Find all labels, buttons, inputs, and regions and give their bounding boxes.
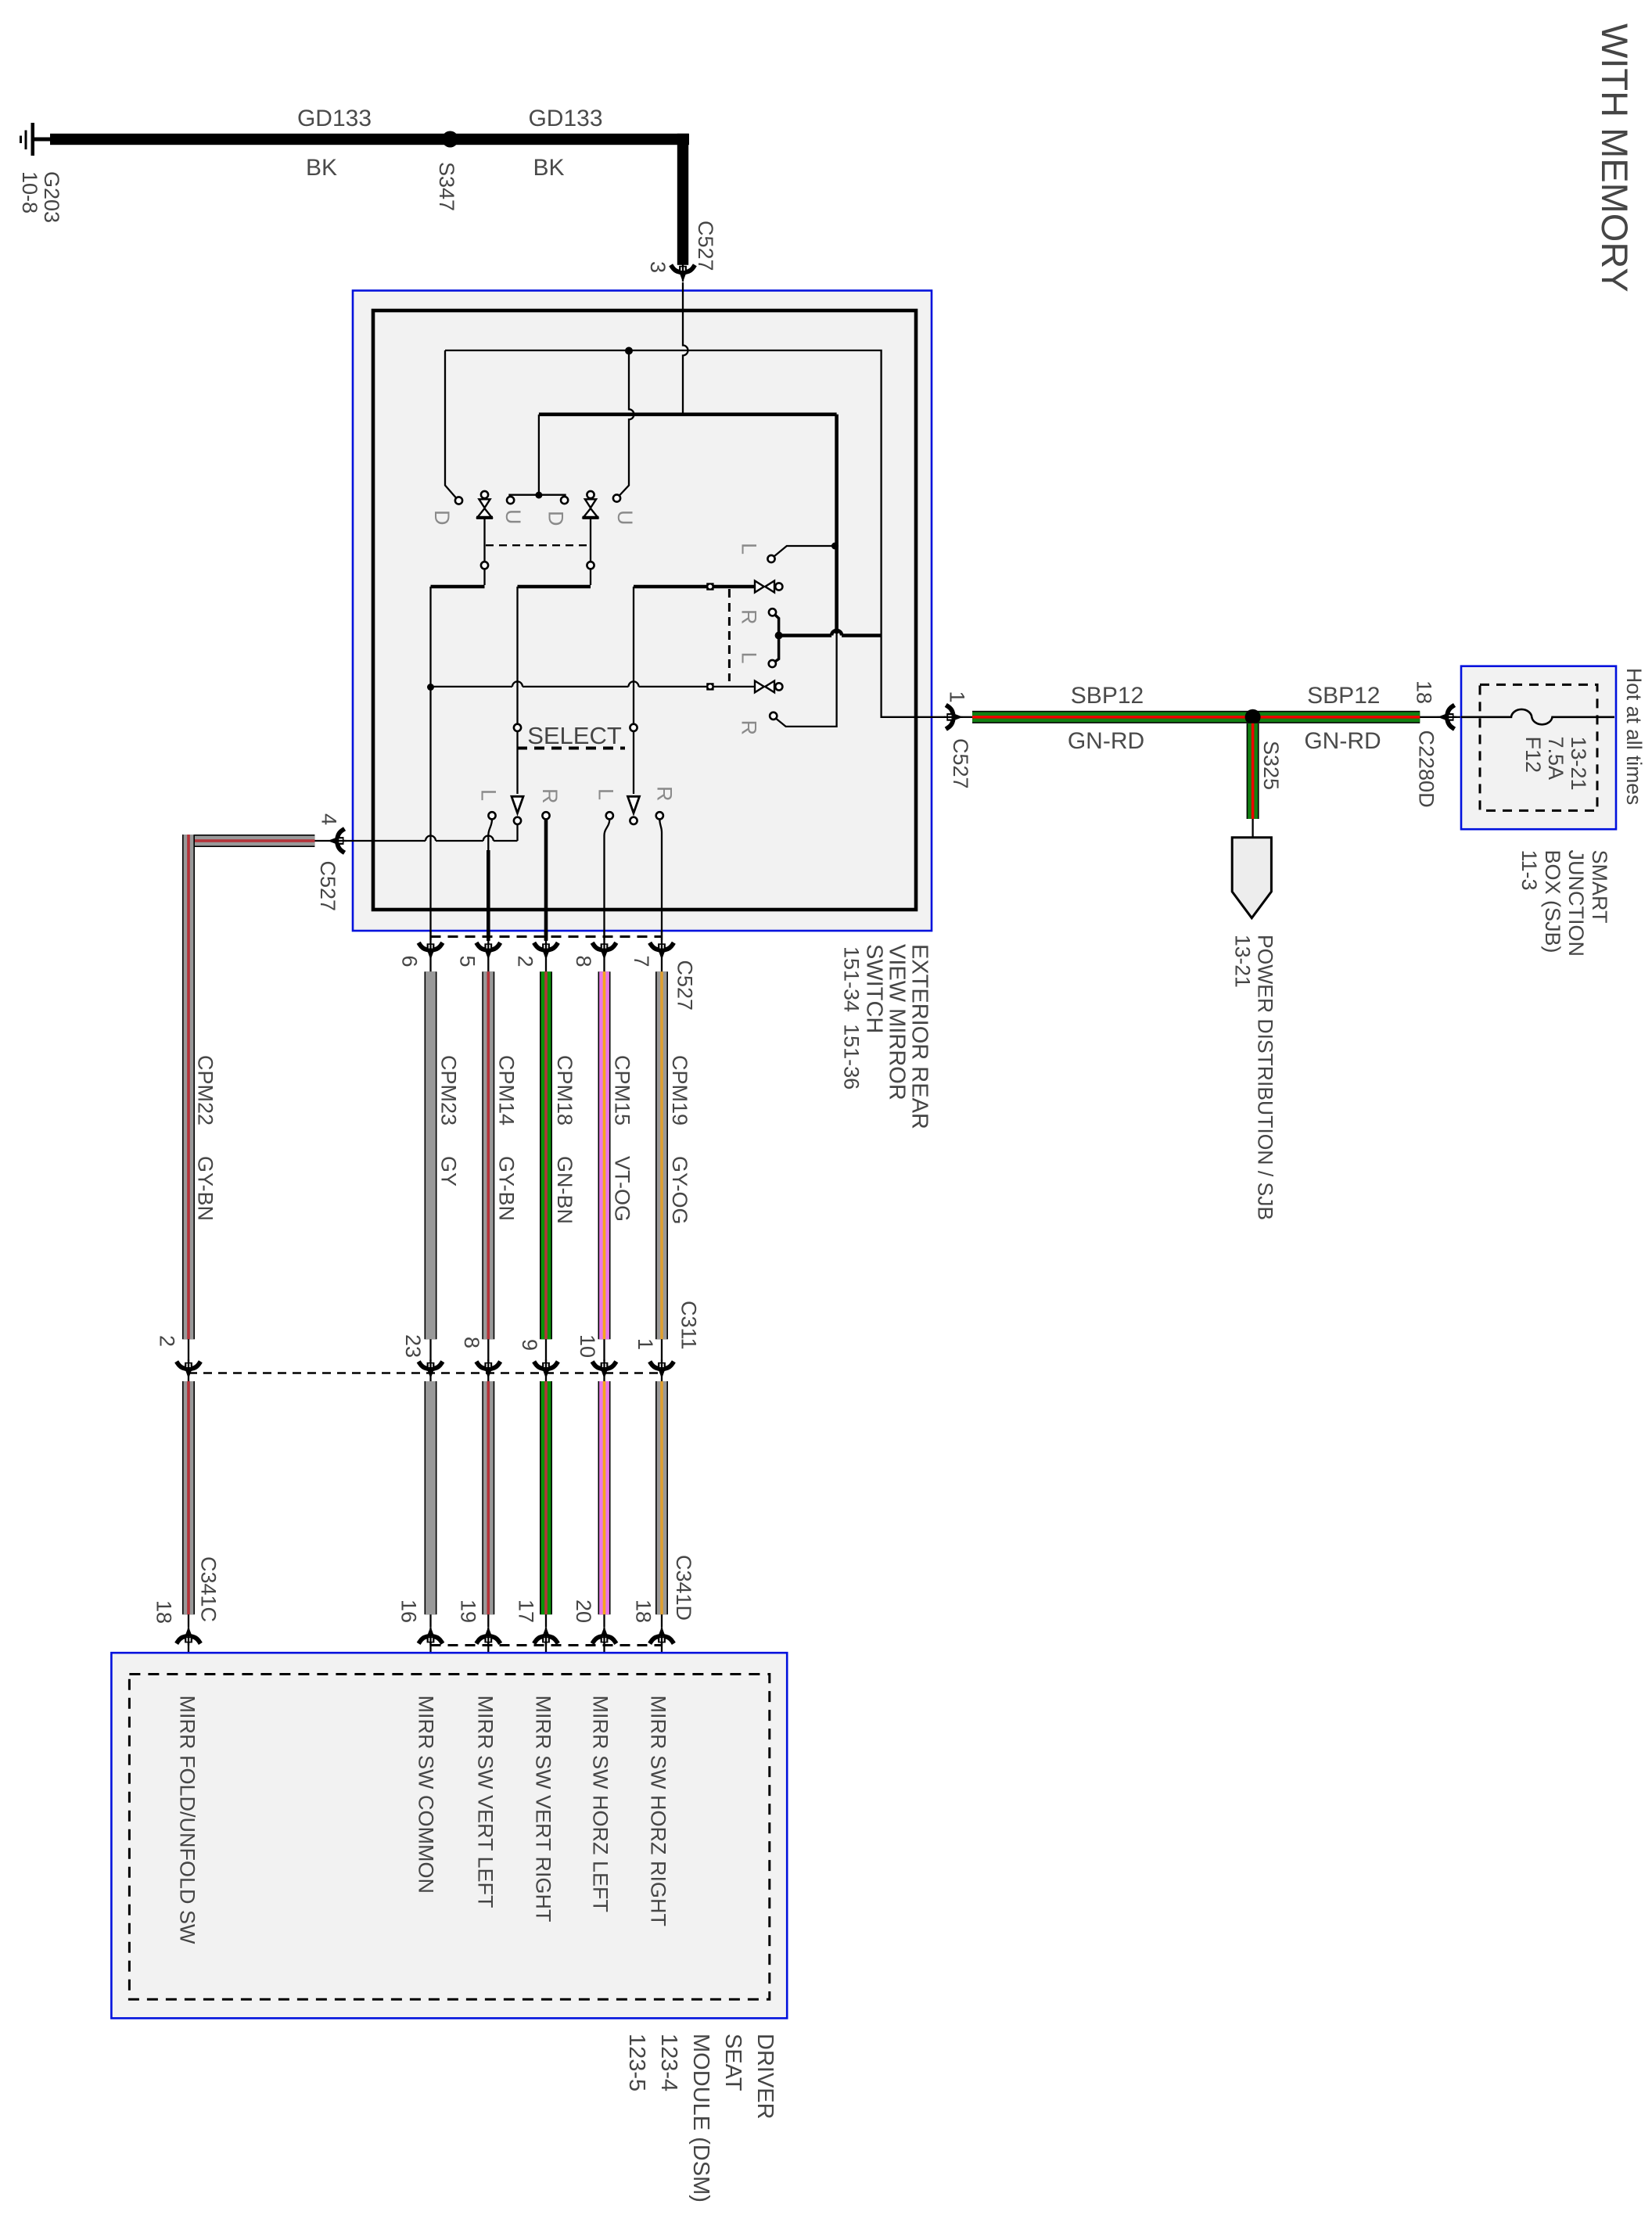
connector C311 pin 1	[651, 1360, 673, 1379]
svg-text:8: 8	[572, 956, 595, 967]
svg-text:L: L	[477, 789, 501, 801]
svg-text:CPM15: CPM15	[611, 1055, 634, 1125]
splice S325	[1245, 709, 1261, 725]
connector C527 pin 6	[420, 941, 442, 960]
svg-text:S347: S347	[435, 162, 458, 211]
wire SBP12 GN-RD vertical stub	[1247, 723, 1259, 819]
svg-text:C2280D: C2280D	[1415, 731, 1438, 808]
svg-text:L: L	[738, 652, 761, 664]
svg-text:BK: BK	[533, 155, 564, 181]
mechanical link dashed between wipers	[486, 544, 590, 546]
svg-text:18: 18	[153, 1600, 176, 1624]
wire thick feed A	[539, 412, 837, 416]
contact L upper switch	[767, 555, 774, 562]
contact R upper switch	[769, 608, 776, 616]
svg-text:16: 16	[397, 1599, 421, 1623]
wire stub to power distribution arrow	[1252, 819, 1253, 837]
wire stubs arrows to bands	[431, 960, 663, 972]
svg-text:BK: BK	[306, 155, 337, 181]
svg-text:20: 20	[572, 1599, 595, 1623]
svg-text:VT-OG: VT-OG	[611, 1156, 634, 1222]
wiper bowtie upper switch	[755, 581, 782, 593]
wire SBP12 GN-RD horizontal	[972, 711, 1420, 723]
wire L contact to thick vertical	[774, 546, 834, 557]
svg-text:MIRR SW HORZ RIGHT: MIRR SW HORZ RIGHT	[647, 1696, 670, 1926]
connector C311 pin 9	[535, 1360, 557, 1379]
svg-text:CPM19: CPM19	[668, 1055, 691, 1125]
connector C341D pin 20	[594, 1627, 616, 1646]
svg-text:SEAT: SEAT	[720, 2034, 745, 2091]
svg-text:2: 2	[514, 956, 537, 967]
connector C311 pin 23	[420, 1360, 442, 1379]
contact D-left	[455, 497, 462, 504]
wire CPM23 GY segment 2	[425, 1381, 437, 1614]
wire L to pin5	[488, 819, 492, 850]
svg-text:3: 3	[646, 261, 670, 273]
node dot on thick vertical	[831, 543, 839, 550]
wire select-right column	[633, 587, 634, 724]
svg-text:Hot at all times: Hot at all times	[1622, 668, 1646, 805]
contact L output row	[488, 812, 495, 819]
svg-text:GD133: GD133	[528, 106, 602, 131]
svg-text:R: R	[653, 786, 677, 802]
svg-text:GY-BN: GY-BN	[194, 1156, 217, 1221]
svg-text:GN-RD: GN-RD	[1304, 728, 1381, 754]
svg-text:11-3: 11-3	[1517, 850, 1541, 891]
svg-text:R: R	[738, 720, 761, 736]
svg-text:1: 1	[634, 1338, 657, 1350]
svg-text:MODULE (DSM): MODULE (DSM)	[688, 2034, 713, 2202]
svg-text:9: 9	[518, 1339, 541, 1351]
svg-text:VIEW MIRROR: VIEW MIRROR	[885, 944, 910, 1100]
svg-text:MIRR SW VERT LEFT: MIRR SW VERT LEFT	[474, 1696, 497, 1908]
pivot lower switch	[706, 683, 713, 690]
wire GD133 BK thick ground wire	[50, 134, 689, 145]
wire CPM22 GY-BN vertical leg to C311	[182, 835, 195, 1339]
wire stub into SJB	[1453, 716, 1461, 718]
wire thick D right-switch rail	[634, 585, 755, 589]
wire thin loop y=448 across box to pin 1	[445, 350, 946, 717]
contact select right	[630, 724, 637, 731]
connector C341D pin 19	[478, 1627, 500, 1646]
connector C311 pin 10	[594, 1360, 616, 1379]
svg-text:SBP12: SBP12	[1307, 683, 1380, 709]
svg-text:23: 23	[401, 1334, 425, 1358]
wire bar R-upper to L-lower	[775, 615, 779, 662]
connector C527 pin 1	[944, 706, 963, 728]
svg-text:U: U	[501, 509, 525, 525]
svg-text:SWITCH: SWITCH	[862, 944, 887, 1033]
svg-text:GY-BN: GY-BN	[495, 1156, 519, 1221]
svg-text:18: 18	[632, 1599, 655, 1623]
wire R2 to pin7	[659, 819, 662, 940]
wiper bowtie lower switch	[755, 681, 782, 693]
wire stubs blue box to arrows	[429, 931, 431, 941]
svg-text:GY-OG: GY-OG	[668, 1156, 691, 1225]
svg-text:U: U	[613, 510, 637, 526]
exterior mirror switch label block	[840, 944, 932, 1129]
svg-text:SBP12: SBP12	[1071, 683, 1144, 709]
exterior mirror switch box (blue)	[353, 291, 932, 932]
wire stub pin1 to SBP12	[963, 716, 973, 718]
wire lower switch feed with hops	[431, 686, 756, 687]
wire branch from dot down to contact U-right (hops thick wire)	[619, 351, 634, 496]
svg-text:CPM22: CPM22	[194, 1055, 217, 1125]
wire CPM19 GY-OG segment 1	[655, 971, 668, 1339]
wire thin continuation to R lower contact	[776, 634, 836, 727]
svg-text:C527: C527	[316, 861, 339, 912]
wire from C527-3 into box (hops over y448 wire)	[683, 282, 688, 413]
select dashed underline	[517, 747, 625, 750]
splice S347	[442, 131, 458, 148]
svg-text:10: 10	[576, 1334, 599, 1358]
wire pin4 run inside box with hops	[353, 840, 518, 842]
svg-text:17: 17	[515, 1599, 538, 1623]
svg-text:123-5: 123-5	[624, 2034, 649, 2091]
svg-text:7: 7	[630, 956, 653, 967]
svg-text:F12: F12	[1521, 737, 1545, 774]
contact D-right	[561, 497, 568, 504]
connector C341C pin 18	[178, 1627, 199, 1646]
smart junction box (blue)	[1461, 666, 1616, 829]
mechanical link dashed horizontal switches	[728, 589, 731, 681]
switch box inner thick rectangle	[373, 311, 916, 910]
driver seat module DSM box (blue)	[111, 1653, 787, 2018]
wire select-left wiper stem	[516, 731, 518, 794]
svg-text:EXTERIOR REAR: EXTERIOR REAR	[907, 944, 932, 1129]
svg-text:GN-BN: GN-BN	[553, 1156, 576, 1224]
svg-text:7.5A: 7.5A	[1544, 737, 1568, 781]
svg-text:SMART: SMART	[1588, 850, 1611, 924]
svg-text:L: L	[738, 543, 761, 555]
svg-text:1: 1	[946, 691, 969, 703]
wire pin6 vertical	[429, 587, 431, 685]
svg-text:BOX (SJB): BOX (SJB)	[1541, 850, 1564, 953]
contact L2 output row	[606, 812, 613, 819]
svg-text:L: L	[594, 788, 618, 800]
svg-text:151-34 151-36: 151-34 151-36	[840, 946, 864, 1090]
wire contacts bar U-left to D-right	[510, 495, 566, 498]
svg-text:C311: C311	[677, 1301, 701, 1350]
connector C527 pin 4	[328, 830, 347, 852]
svg-text:GY: GY	[437, 1156, 461, 1186]
svg-text:C341D: C341D	[672, 1555, 695, 1621]
svg-text:MIRR SW COMMON: MIRR SW COMMON	[415, 1696, 438, 1894]
wire R to pin2	[544, 819, 548, 940]
connector C311 pin 2	[178, 1360, 199, 1379]
wire tip contact to pin4 run	[516, 824, 518, 841]
wire CPM15 VT-OG segment 1	[598, 971, 611, 1339]
connector C527 pin 8	[594, 941, 616, 960]
svg-text:MIRR SW HORZ LEFT: MIRR SW HORZ LEFT	[589, 1696, 612, 1913]
node dot pin6/lower-switch junction	[427, 684, 434, 691]
svg-text:C341C: C341C	[197, 1556, 221, 1622]
wire CPM19 GY-OG segment 2	[655, 1381, 668, 1614]
svg-text:C527: C527	[949, 738, 972, 789]
svg-text:CPM14: CPM14	[495, 1055, 519, 1125]
svg-text:D: D	[430, 510, 454, 526]
wire stubs through C311	[189, 1339, 662, 1361]
connector C341D pin 18	[651, 1627, 673, 1646]
svg-text:CPM18: CPM18	[553, 1055, 576, 1125]
svg-text:6: 6	[398, 956, 422, 967]
power distribution arrow	[1232, 838, 1271, 918]
wire CPM18 GN-BN segment 1	[540, 971, 552, 1339]
wire from thick A down to center contacts bar	[538, 415, 540, 492]
wire stubs at pin 4	[314, 840, 353, 842]
select wiper right tip contact	[630, 817, 637, 824]
contact select left	[514, 724, 521, 731]
svg-text:2: 2	[156, 1335, 179, 1347]
svg-text:10-8: 10-8	[18, 171, 41, 214]
svg-text:JUNCTION: JUNCTION	[1564, 850, 1588, 957]
fuse F12 wire with fuse element	[1461, 709, 1614, 724]
wire select-right wiper stem	[633, 731, 634, 794]
connector C2280D pin 18	[1438, 706, 1456, 728]
svg-text:C527: C527	[673, 960, 697, 1011]
svg-text:MIRR FOLD/UNFOLD SW: MIRR FOLD/UNFOLD SW	[176, 1696, 199, 1945]
connector C527 pin 7	[651, 941, 673, 960]
wire L2 to pin8	[605, 819, 610, 940]
contact R2 output row	[656, 812, 663, 819]
wire CPM23 GY segment 1	[425, 971, 437, 1339]
svg-text:R: R	[538, 788, 562, 804]
svg-text:C527: C527	[694, 221, 717, 271]
wire thick vertical right	[835, 415, 839, 634]
node dot on bar	[775, 632, 783, 640]
svg-text:G203: G203	[40, 171, 63, 223]
svg-text:D: D	[544, 511, 568, 526]
contact R output row	[542, 812, 549, 819]
ground G203 symbol	[20, 123, 51, 156]
wire CPM22 GY-BN segment 2	[182, 1381, 195, 1614]
wire CPM18 GN-BN segment 2	[540, 1381, 552, 1614]
wire thick bar to pin1 column (hops thick vertical)	[779, 634, 882, 637]
connector C311 pin 8	[478, 1360, 500, 1379]
select wiper right triangle	[628, 796, 640, 813]
select wiper left tip contact	[514, 817, 521, 824]
pivot upper switch	[706, 583, 713, 590]
wire pin6 vertical lower	[429, 687, 431, 941]
contact U-left	[507, 497, 514, 504]
svg-text:POWER DISTRIBUTION / SJB: POWER DISTRIBUTION / SJB	[1254, 935, 1277, 1220]
contact L lower switch	[769, 660, 776, 667]
label SMART JUNCTION BOX (SJB)	[1517, 850, 1611, 957]
svg-text:WITH MEMORY: WITH MEMORY	[1594, 23, 1636, 293]
connector C527 pin 3	[672, 264, 694, 282]
DSM inner dashed rectangle	[129, 1675, 769, 2000]
node junction dot on y448 wire	[625, 347, 633, 355]
connector C341D pin 17	[535, 1627, 557, 1646]
connector C527 pin 2	[535, 941, 557, 960]
wire CPM22 GY-BN from C527-4 (horizontal leg)	[182, 835, 314, 847]
wiper 2 vertical mirror switch	[583, 491, 599, 585]
contact U-right	[613, 494, 620, 501]
svg-text:13-21: 13-21	[1231, 935, 1255, 988]
svg-text:8: 8	[460, 1337, 483, 1348]
svg-text:CPM23: CPM23	[437, 1055, 461, 1125]
SJB inner dashed rectangle	[1480, 684, 1597, 810]
label DRIVER SEAT MODULE (DSM)	[624, 2034, 778, 2202]
select wiper left triangle	[512, 796, 523, 813]
connector C341D pin 16	[420, 1627, 442, 1646]
wire stub to C2280D	[1420, 716, 1438, 718]
wire GD133 vertical leg to C527 pin 3	[677, 134, 688, 265]
svg-text:GD133: GD133	[297, 106, 372, 131]
wiper 1 vertical mirror switch	[476, 491, 493, 585]
wire select-left column	[516, 587, 518, 724]
node dot on contacts bar	[535, 492, 542, 499]
wire thick B wiper1 rail	[431, 585, 485, 589]
svg-text:DRIVER: DRIVER	[752, 2034, 778, 2120]
svg-text:19: 19	[457, 1599, 480, 1623]
svg-text:S325: S325	[1259, 741, 1283, 790]
connector C311 dashed bracket	[189, 1372, 662, 1374]
svg-text:123-4: 123-4	[656, 2034, 681, 2091]
svg-text:18: 18	[1413, 680, 1436, 704]
svg-text:4: 4	[318, 813, 341, 825]
svg-text:MIRR SW VERT RIGHT: MIRR SW VERT RIGHT	[532, 1696, 555, 1922]
svg-text:R: R	[738, 609, 761, 625]
connector C527 pin 5	[478, 941, 500, 960]
contact R lower switch	[770, 713, 777, 720]
wire CPM15 VT-OG segment 2	[598, 1381, 611, 1614]
svg-text:GN-RD: GN-RD	[1068, 728, 1144, 754]
wire CPM14 GY-BN segment 1	[482, 971, 494, 1339]
svg-text:13-21: 13-21	[1567, 737, 1590, 791]
wire thick C wiper2 rail	[518, 585, 591, 589]
wire CPM14 GY-BN segment 2	[482, 1381, 494, 1614]
connector C341D dashed bracket	[431, 1644, 663, 1646]
wire left leg down to contact D-left	[445, 350, 456, 498]
svg-text:5: 5	[456, 956, 479, 967]
wire stubs into DSM	[189, 1614, 662, 1627]
svg-text:SELECT: SELECT	[527, 722, 622, 749]
box exit dashed bracket C527	[431, 935, 663, 938]
